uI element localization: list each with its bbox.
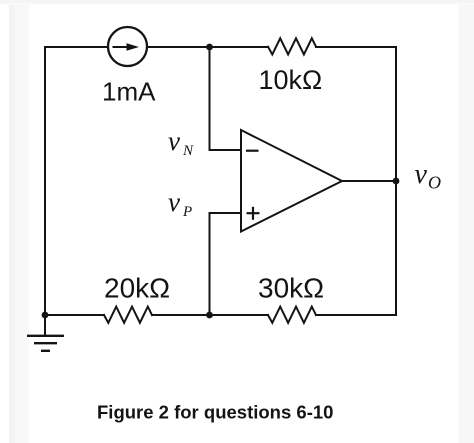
wire top left to current source <box>45 46 108 48</box>
resistor 30k zigzag <box>268 307 316 323</box>
wire node A to resistor 10k <box>209 46 268 48</box>
svg-text:Figure 2 for questions 6-10: Figure 2 for questions 6-10 <box>97 402 333 423</box>
svg-text:P: P <box>182 204 192 220</box>
wire right vertical <box>395 47 397 315</box>
op-amp plus sign <box>247 207 260 220</box>
node B junction dot <box>206 312 213 319</box>
node A junction dot <box>206 44 213 51</box>
wire current source to node A <box>147 46 209 48</box>
node O junction dot <box>393 178 400 185</box>
wire left vertical <box>44 47 46 315</box>
svg-text:v: v <box>168 126 180 156</box>
svg-text:30kΩ: 30kΩ <box>258 273 324 304</box>
ground bars <box>27 336 64 351</box>
svg-text:N: N <box>182 143 194 159</box>
svg-text:v: v <box>415 159 428 190</box>
svg-text:v: v <box>168 187 180 217</box>
node ground junction dot <box>42 312 49 319</box>
op-amp U1 triangle <box>241 130 342 232</box>
op-amp minus sign <box>246 150 259 152</box>
wire 30k to bottom right corner <box>316 314 396 316</box>
current source arrow <box>113 43 140 51</box>
resistor R 10k zigzag <box>268 38 316 54</box>
svg-text:20kΩ: 20kΩ <box>104 273 170 304</box>
wire bottom: ground to 20k <box>45 314 104 316</box>
ground stem <box>44 315 46 335</box>
svg-text:O: O <box>428 173 441 193</box>
wire vP up from bottom node <box>210 213 242 315</box>
wire node A down to vN <box>210 47 242 150</box>
svg-text:1mA: 1mA <box>102 77 156 107</box>
current source I1 <box>108 27 147 66</box>
wire op-amp output to node O <box>342 180 396 182</box>
svg-text:10kΩ: 10kΩ <box>259 65 323 95</box>
wire resistor 10k to top right corner <box>316 46 396 48</box>
resistor 20k zigzag <box>104 307 152 323</box>
wire 20k to node B <box>152 314 268 316</box>
